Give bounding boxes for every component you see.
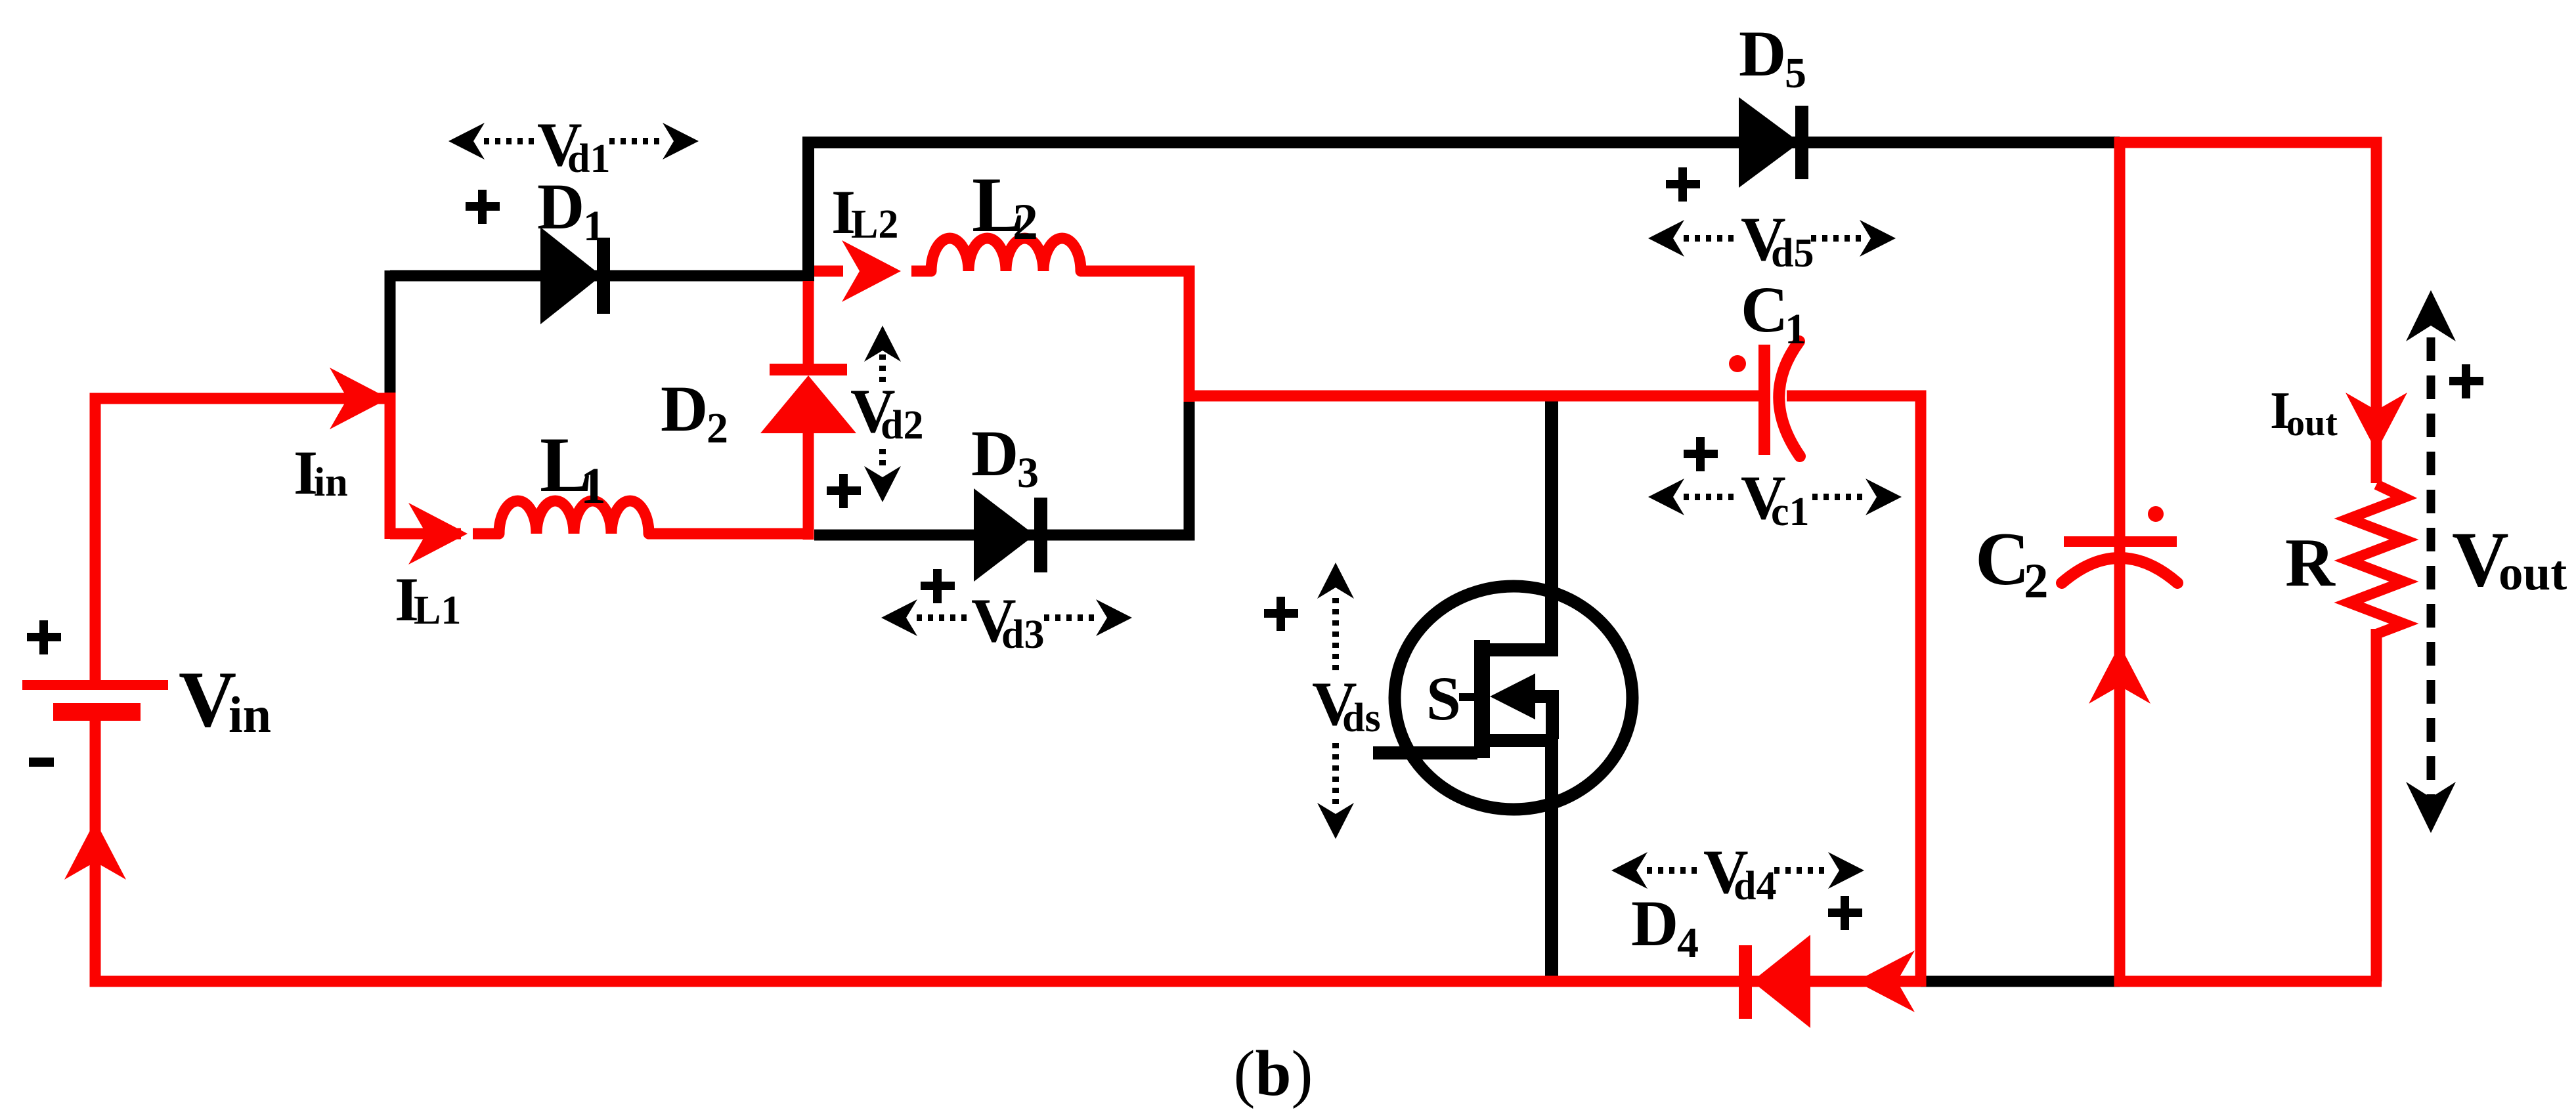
label + (Vd2)	[827, 486, 861, 495]
svg-text:d1: d1	[567, 137, 610, 181]
wire D3 branch black	[814, 396, 1189, 535]
current arrow into C2	[2089, 645, 2150, 704]
measure arrowhead Vc1 right	[1866, 479, 1902, 515]
svg-text:C: C	[1975, 517, 2030, 601]
svg-text:4: 4	[1677, 919, 1699, 967]
polarity dot C1	[1729, 355, 1746, 372]
diode D3	[974, 488, 1035, 582]
measure arrowhead Vd4 left	[1611, 852, 1648, 889]
wire MOSFET gate lead	[1373, 746, 1477, 759]
svg-text:d2: d2	[881, 403, 923, 448]
diode D2	[770, 364, 847, 375]
measure arrowhead Vds bottom	[1317, 803, 1354, 839]
measure arrow Vd4	[1647, 867, 1830, 874]
transistor S gate tick	[1459, 693, 1476, 701]
measure arrowhead Vout bottom	[2406, 782, 2456, 833]
wire MOSFET drain black	[1545, 393, 1558, 656]
svg-text:L1: L1	[414, 588, 461, 633]
wire D2 branch red	[803, 281, 814, 540]
measure arrow Vd5	[1684, 235, 1862, 242]
label - (Vin)	[29, 758, 54, 767]
wire input rail from Vin	[95, 398, 390, 685]
transistor S source stub	[1488, 734, 1558, 747]
diode D4	[1739, 945, 1752, 1019]
measure arrow Vd2	[879, 354, 886, 471]
svg-text:ds: ds	[1342, 696, 1381, 740]
svg-text:D: D	[1631, 887, 1678, 960]
svg-text:1: 1	[580, 457, 606, 514]
svg-text:L2: L2	[851, 202, 898, 247]
svg-text:in: in	[314, 460, 348, 505]
svg-text:1: 1	[583, 202, 605, 250]
current arrow Iin	[330, 368, 389, 429]
label + (Vd3)	[921, 582, 955, 590]
measure arrow Vds	[1332, 598, 1339, 805]
measure arrow Vd3	[917, 614, 1098, 621]
current arrow IL1	[408, 503, 468, 565]
measure arrowhead Vd5 right	[1860, 220, 1896, 257]
svg-text:V: V	[179, 655, 236, 744]
wire output top rail and R branch red	[2115, 142, 2382, 981]
current arrow return to Vin	[64, 821, 126, 880]
wire node A stub black	[385, 270, 396, 394]
diode D5	[1739, 97, 1800, 188]
measure arrowhead Vds top	[1317, 563, 1354, 599]
measure arrowhead Vd1 left	[448, 123, 485, 160]
svg-text:S: S	[1426, 664, 1461, 733]
measure arrow Vc1	[1684, 494, 1867, 500]
measure arrowhead Vd1 right	[663, 123, 699, 160]
svg-text:R: R	[2285, 524, 2336, 601]
wire D1 branch black	[390, 270, 814, 282]
wire node A to L1 red	[390, 393, 811, 539]
label + (Vd5)	[1666, 180, 1700, 188]
capacitor C1	[1758, 345, 1770, 455]
svg-text:D: D	[661, 372, 708, 445]
label + (Vc1)	[1684, 450, 1718, 458]
svg-text:d4: d4	[1734, 864, 1776, 909]
transistor S body arrow	[1490, 674, 1535, 719]
svg-text:2: 2	[2024, 554, 2049, 609]
measure arrowhead Vd5 left	[1648, 220, 1684, 257]
measure arrowhead Vd2 bottom	[864, 466, 901, 502]
measure arrowhead Vout top	[2406, 290, 2456, 341]
measure arrowhead Vd3 left	[881, 599, 917, 636]
battery Vin negative plate	[53, 703, 141, 721]
svg-text:in: in	[229, 686, 271, 743]
svg-text:C: C	[1741, 273, 1788, 346]
wire middle rail to C1 red	[1184, 396, 1921, 987]
battery Vin positive plate	[22, 680, 168, 690]
svg-text:d5: d5	[1771, 231, 1814, 276]
wire top rail black	[808, 142, 2120, 276]
svg-text:out: out	[2286, 403, 2338, 444]
label + (Vd1)	[466, 202, 500, 211]
transistor S channel bar	[1474, 640, 1490, 758]
transistor S drain stub	[1488, 643, 1552, 656]
svg-text:out: out	[2499, 546, 2567, 601]
svg-text:5: 5	[1785, 49, 1806, 97]
inductor L1	[499, 501, 649, 534]
measure arrowhead Vc1 left	[1648, 479, 1684, 515]
measure arrowhead Vd4 right	[1828, 852, 1864, 889]
svg-text:3: 3	[1017, 449, 1039, 497]
current arrow Iout	[2346, 393, 2407, 452]
label + (Vin)	[27, 633, 61, 641]
svg-text:(b): (b)	[1234, 1038, 1313, 1109]
svg-text:2: 2	[707, 404, 728, 452]
wire Vin minus to bottom rail red	[95, 712, 1921, 981]
svg-text:1: 1	[1785, 305, 1806, 353]
wire bottom rail black segment	[1921, 976, 2122, 987]
current arrow IL2	[842, 240, 901, 302]
svg-text:D: D	[971, 417, 1018, 490]
wire IL2 branch red	[814, 271, 1189, 402]
svg-text:2: 2	[1013, 193, 1038, 250]
svg-text:c1: c1	[1771, 490, 1810, 534]
transistor S body circle	[1395, 586, 1632, 809]
capacitor C2	[2064, 536, 2177, 547]
wire C2 branch red	[2114, 137, 2126, 987]
current arrow into D4	[1856, 951, 1915, 1012]
svg-text:d3: d3	[1001, 612, 1044, 657]
measure arrowhead Vd3 right	[1096, 599, 1132, 636]
label + (Vds)	[1264, 609, 1298, 618]
wire MOSFET source to bottom rail black	[1545, 738, 1558, 983]
diode D1	[540, 227, 601, 324]
label + (Vout)	[2449, 377, 2483, 385]
svg-text:D: D	[1739, 17, 1786, 90]
measure arrowhead Vd2 top	[864, 326, 901, 362]
polarity dot C2	[2148, 506, 2164, 522]
measure arrow Vout dashed line	[2427, 299, 2435, 824]
label + (Vd4)	[1828, 909, 1862, 917]
measure arrow Vd1	[484, 138, 665, 144]
resistor R	[2349, 484, 2404, 634]
inductor L2	[931, 238, 1081, 271]
